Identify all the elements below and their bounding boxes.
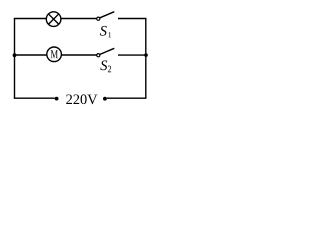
lamp (circle with X) (46, 12, 61, 27)
switch S1 blade (100, 12, 114, 18)
wire: bottom left segment (14, 97, 55, 99)
wire: left vertical (14, 19, 16, 99)
node: right junction dot (144, 53, 148, 57)
wire: S1 contact to right corner (118, 18, 147, 20)
label S1 (100, 26, 107, 36)
switch S2 blade (100, 48, 114, 54)
label 220V (66, 94, 97, 104)
node: right supply terminal dot (103, 97, 107, 101)
switch S1 pivot (97, 17, 100, 20)
wire: top, left corner to lamp (14, 18, 47, 20)
wire: right vertical (145, 19, 147, 99)
wire: motor to switch S2 (61, 54, 96, 56)
label S2 (100, 60, 107, 70)
wire: middle, left to motor (15, 54, 48, 56)
node: left supply terminal dot (55, 97, 59, 101)
wire: bottom right segment (107, 97, 147, 99)
node: left junction dot (13, 53, 17, 57)
wire: lamp to switch S1 (61, 18, 97, 20)
switch S2 pivot (97, 54, 100, 57)
wire: S2 contact to right junction (118, 54, 146, 56)
motor (circle with M) (47, 47, 62, 62)
